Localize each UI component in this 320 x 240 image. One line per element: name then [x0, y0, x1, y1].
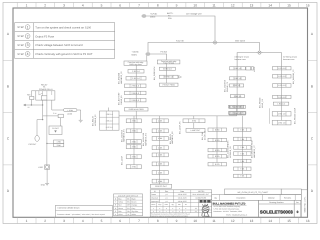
connector K1 rows [54, 140, 64, 143]
svg-text:4: 4 [27, 52, 29, 56]
svg-text:09-04-2025: 09-04-2025 [178, 197, 187, 200]
part description cell 2 [281, 189, 301, 195]
svg-text:Red: Red [118, 204, 121, 207]
svg-text:3 RD: 3 RD [132, 166, 137, 169]
svg-text:11: 11 [212, 219, 216, 223]
connector C7 pin row 3 [234, 146, 252, 150]
svg-text:7: 7 [138, 219, 140, 223]
connector S2 pin row 1 [128, 70, 144, 74]
svg-text:3 RD: 3 RD [132, 120, 137, 123]
wire: main distribution bus [119, 115, 237, 117]
connector S2 pin row 5 [125, 98, 147, 102]
wire: P5 bus [193, 123, 195, 129]
svg-text:MODULE_C6: MODULE_C6 [229, 146, 232, 158]
svg-text:13: 13 [250, 4, 254, 8]
bull logo [202, 204, 210, 216]
svg-text:F3 30A: F3 30A [161, 51, 168, 54]
svg-text:2 BK: 2 BK [57, 144, 62, 147]
connector C3 pin row 1 [230, 67, 246, 70]
svg-text:6 RD: 6 RD [215, 155, 220, 158]
svg-text:4 BK: 4 BK [158, 163, 163, 166]
connector C7 pin row 7 [234, 174, 252, 177]
wire: node to S2 header [146, 55, 148, 61]
svg-text:1 RD 1.0: 1 RD 1.0 [234, 95, 241, 98]
connector C5 header box 1 [228, 105, 243, 108]
svg-text:a: a [153, 211, 154, 213]
wire: P3 bus [133, 119, 135, 165]
svg-text:Connector details shown: Connector details shown [58, 207, 80, 210]
svg-text:6 RD: 6 RD [215, 139, 220, 142]
wire: node to wiring chass stack [262, 53, 282, 67]
svg-text:GND: GND [41, 183, 46, 186]
svg-text:STEP -: STEP - [17, 35, 25, 38]
svg-text:1 RD 1.0: 1 RD 1.0 [278, 113, 285, 116]
svg-text:7 BK: 7 BK [240, 146, 245, 149]
svg-text:10: 10 [193, 4, 197, 8]
svg-text:5 RD: 5 RD [192, 120, 197, 123]
fuse F16 [58, 114, 63, 118]
svg-text:Material: Material [268, 196, 275, 199]
svg-text:Yellow: Yellow [118, 201, 124, 204]
connector C7 pin row 6 [234, 167, 252, 170]
svg-text:3 RD: 3 RD [132, 130, 137, 133]
connector S2 header [124, 61, 147, 65]
svg-text:1 RD 1.0: 1 RD 1.0 [278, 75, 285, 78]
svg-text:HARNESS_P4: HARNESS_P4 [144, 133, 147, 146]
wire: P4 bus [159, 119, 161, 184]
connector P4 pin row 7 [152, 171, 168, 175]
svg-text:Violet: Violet [118, 213, 123, 216]
svg-text:14: 14 [268, 219, 272, 223]
company logo cell [199, 199, 212, 217]
svg-text:16: 16 [306, 219, 310, 223]
svg-text:1 RD: 1 RD [57, 141, 62, 144]
svg-text:4 BK: 4 BK [158, 154, 163, 157]
ground G1 [45, 183, 49, 185]
connector P4 pin row 5 [152, 153, 168, 157]
svg-text:8: 8 [157, 219, 159, 223]
connector P4 pin row 8 [152, 179, 168, 183]
wire: C4 bus [281, 67, 283, 121]
svg-text:4 BK: 4 BK [158, 171, 163, 174]
svg-text:09-04-2025: 09-04-2025 [178, 200, 187, 203]
svg-text:3 RD: 3 RD [132, 156, 137, 159]
wire: F23 feed to relay [31, 91, 35, 97]
svg-text:09-04-2025: 09-04-2025 [178, 193, 187, 196]
connector C4 pin row 3 [273, 84, 292, 88]
vertical sheet cell [301, 190, 307, 218]
svg-text:12: 12 [28, 106, 30, 109]
svg-text:Rev: Rev [165, 190, 168, 193]
svg-text:Fuse 30: Fuse 30 [176, 39, 184, 42]
svg-text:4: 4 [82, 4, 84, 8]
svg-text:Orange: Orange [132, 204, 138, 207]
wire: S100 junction to chassis node [218, 43, 260, 51]
svg-text:3: 3 [63, 219, 65, 223]
terminal F20 [35, 136, 39, 142]
note box [56, 205, 113, 217]
node: junction S100 [212, 41, 218, 44]
svg-text:This drawing is the property o: This drawing is the property of BULL MAC… [151, 214, 190, 216]
svg-text:2 RD 1.0: 2 RD 1.0 [131, 92, 138, 95]
svg-text:STEP -: STEP - [17, 26, 25, 29]
wire: junction to fuse drop [148, 43, 213, 53]
svg-text:S100 MAIN FEED: S100 MAIN FEED [129, 108, 145, 111]
wire: P2 stub [108, 108, 110, 112]
svg-text:7 BK: 7 BK [240, 175, 245, 178]
connector P4 footer [150, 184, 171, 188]
svg-text:Check voltage between S100 & G: Check voltage between S100 & Ground [35, 44, 83, 47]
arrow in box [54, 130, 57, 132]
svg-text:F23: F23 [27, 94, 30, 97]
part description cell [225, 189, 282, 195]
svg-text:1 RD 1.0: 1 RD 1.0 [278, 96, 285, 99]
header cells row [212, 195, 302, 201]
connector C3 pin row 6 [229, 112, 245, 115]
connector F3 pin row 2 [159, 75, 178, 78]
wire: lamp to ground [46, 169, 48, 183]
svg-text:4 BK: 4 BK [158, 120, 163, 123]
svg-text:4 BK: 4 BK [158, 130, 163, 133]
wire: C6 bus [216, 128, 218, 163]
svg-text:2: 2 [44, 219, 46, 223]
svg-text:Remarks: Remarks [284, 196, 291, 199]
connector P3 pin row 3 [126, 140, 141, 144]
svg-text:Date: Date [180, 190, 184, 193]
wire: F23 to off-page arrow [26, 100, 32, 106]
svg-text:+12Vdc: +12Vdc [150, 13, 157, 16]
svg-text:Black: Black [132, 197, 136, 200]
svg-text:STEP -: STEP - [17, 44, 25, 47]
connector S2 pin row 3 [125, 84, 147, 88]
svg-text:30 RD 4.0: 30 RD 4.0 [163, 68, 172, 71]
svg-text:6: 6 [119, 219, 121, 223]
svg-text:White: White [132, 213, 136, 216]
svg-text:e: e [179, 211, 180, 213]
svg-text:3: 3 [63, 4, 65, 8]
svg-text:SHEET NO 1 OF 1: SHEET NO 1 OF 1 [303, 197, 306, 213]
svg-text:7: 7 [138, 4, 140, 8]
connector P3 pin row 2 [126, 129, 141, 133]
connector S2 pin row 2 [126, 77, 146, 81]
svg-text:12: 12 [231, 219, 235, 223]
connector C5 header box 2 [228, 112, 246, 115]
wire: C7 bus [242, 128, 244, 174]
svg-text:2 RD 1.0: 2 RD 1.0 [132, 77, 139, 80]
svg-text:1 RD 1.0: 1 RD 1.0 [278, 122, 285, 125]
svg-text:S2 RELAY FEED: S2 RELAY FEED [229, 106, 244, 109]
svg-text:HARNESS_S2: HARNESS_S2 [120, 71, 123, 84]
svg-text:Turn on the system and check c: Turn on the system and check current on … [35, 26, 91, 29]
svg-text:5: 5 [101, 219, 103, 223]
svg-text:16: 16 [306, 4, 310, 8]
connector C6 pin row 5 [208, 163, 227, 166]
connector P4 pin row 3 [152, 137, 168, 141]
svg-text:STEP -: STEP - [17, 53, 25, 56]
svg-text:BATT+: BATT+ [167, 12, 174, 15]
svg-text:Qty: Qty [214, 196, 217, 199]
connector P3 pin row 1 [126, 119, 141, 123]
connector P3 OUT box [49, 126, 62, 135]
svg-text:B: B [311, 84, 313, 88]
relay R1 box [36, 91, 55, 100]
svg-text:LAMP_C4: LAMP_C4 [261, 99, 264, 108]
svg-text:4 BK: 4 BK [158, 147, 163, 150]
svg-text:15: 15 [287, 4, 291, 8]
connector P2 block [100, 111, 120, 130]
svg-text:BM_FUSE BOX: BM_FUSE BOX [153, 66, 156, 80]
wire: node to fuse box stack [151, 54, 167, 60]
wire: pin2 aux to F16 [43, 115, 59, 117]
svg-text:12: 12 [231, 4, 235, 8]
svg-text:0: 0 [297, 210, 299, 214]
connector C7 pin row 5 [234, 159, 252, 162]
node: battery junction B+ [141, 14, 147, 17]
connector C7 pin row 2 [234, 137, 252, 141]
svg-text:LAMP OUT: LAMP OUT [191, 129, 201, 132]
svg-text:6: 6 [119, 4, 121, 8]
wire: B+ run to corner [147, 16, 216, 41]
colour code table [114, 194, 143, 216]
svg-text:S100 P3 OUT: S100 P3 OUT [155, 185, 168, 188]
wire: C3 bus [236, 67, 238, 112]
wire: relay pin 3 down to lamp [46, 100, 48, 165]
step instruction table [15, 23, 115, 59]
connector S2 pin row 4 [125, 91, 147, 95]
svg-text:BULL MACHINES PVT LTD: BULL MACHINES PVT LTD [213, 202, 246, 205]
svg-text:3 YE 1.0: 3 YE 1.0 [106, 126, 113, 129]
svg-text:BM_WIRING_C2: BM_WIRING_C2 [292, 70, 295, 84]
connector F3 pin row 1 [159, 67, 175, 70]
svg-text:WE_GLOW_PLUG_P3_TO_CHART: WE_GLOW_PLUG_P3_TO_CHART [237, 191, 268, 194]
svg-text:7 BK: 7 BK [240, 129, 245, 132]
connector P4 pin row 1 [152, 119, 168, 123]
connector C3 pin row 3 [229, 84, 243, 87]
svg-text:Sky Blue: Sky Blue [132, 210, 139, 213]
svg-text:p1: p1 [166, 197, 168, 200]
svg-text:6 RD: 6 RD [215, 149, 220, 152]
svg-text:4: 4 [82, 219, 84, 223]
svg-text:HARNESS_C7: HARNESS_C7 [253, 145, 256, 158]
svg-text:Approved: Approved [151, 200, 158, 203]
svg-text:Blue: Blue [118, 197, 121, 200]
svg-text:harness conn: harness conn [283, 58, 294, 61]
ground G2 [79, 120, 83, 122]
svg-text:Drawing Number: Drawing Number [269, 201, 284, 204]
wire: branch to K1 connector [47, 142, 54, 144]
svg-text:MAIN: MAIN [132, 53, 138, 56]
svg-text:1 RD 1.0: 1 RD 1.0 [233, 84, 240, 87]
svg-text:SOLELETS0003: SOLELETS0003 [260, 209, 294, 214]
svg-text:1 RD 1.0: 1 RD 1.0 [234, 67, 241, 70]
svg-text:7 BK: 7 BK [240, 168, 245, 171]
drawing number block [259, 200, 295, 217]
node: chassis node [257, 51, 263, 54]
connector C4 pin row 1 [273, 67, 292, 70]
fuse F23 [30, 96, 34, 99]
svg-text:Checked: Checked [151, 197, 158, 200]
connector P3 pin row 4 [126, 145, 141, 149]
off-page arrow [23, 104, 26, 107]
svg-text:3 RD: 3 RD [132, 146, 137, 149]
bracket C4 sub-group [268, 108, 270, 124]
svg-text:9: 9 [176, 4, 178, 8]
svg-text:NOTES: NOTES [198, 190, 205, 193]
connector C4 pin row 2 [273, 75, 292, 79]
wire: F23 junction to relay pin [31, 104, 42, 106]
svg-text:F3 OUT FEED: F3 OUT FEED [163, 84, 176, 87]
svg-text:must not be copied or reproduc: must not be copied or reproduced without… [151, 216, 189, 218]
wire: node to engine chass stack [237, 53, 257, 67]
connector P5 pin row 1 [183, 119, 205, 123]
connector C6 pin row 4 [208, 155, 227, 159]
svg-text:1 RD 1.0: 1 RD 1.0 [106, 113, 113, 116]
connector C4 pin row 7 [272, 120, 291, 125]
svg-text:12V Voltage wire: 12V Voltage wire [186, 13, 202, 16]
svg-text:14: 14 [268, 4, 272, 8]
connector S2 footer [125, 108, 149, 111]
svg-text:5: 5 [101, 4, 103, 8]
connector F3 header [157, 60, 180, 64]
svg-text:1: 1 [26, 4, 28, 8]
svg-text:p1: p1 [166, 200, 168, 203]
svg-text:Brown: Brown [132, 201, 137, 204]
svg-text:1: 1 [26, 219, 28, 223]
wire: S2 bus [135, 65, 137, 107]
wire: relay pin 2 down [42, 100, 44, 120]
svg-text:2 BK 1.0: 2 BK 1.0 [106, 119, 113, 122]
wire: bus taps [135, 111, 137, 119]
svg-text:MODULE_P2: MODULE_P2 [94, 115, 97, 126]
svg-text:DOOR_C6: DOOR_C6 [204, 131, 207, 140]
svg-text:+12Vdc: +12Vdc [132, 51, 139, 54]
svg-text:p1: p1 [166, 193, 168, 196]
connector LCOM [64, 109, 78, 112]
connector P5 pin row 2 [186, 128, 205, 132]
wire: F3 bus [166, 64, 168, 83]
svg-text:7 BK: 7 BK [240, 138, 245, 141]
svg-text:2 RD 1.0: 2 RD 1.0 [131, 85, 138, 88]
connector C6 pin row 3 [208, 148, 227, 151]
connector C7 pin row 4 [234, 152, 252, 156]
svg-text:HARNESS_R2: HARNESS_R2 [171, 131, 174, 144]
svg-text:Green: Green [118, 207, 123, 210]
svg-text:Description: Description [236, 196, 245, 199]
svg-text:LCOM: LCOM [67, 112, 73, 115]
wire: LCOM to ground [77, 110, 81, 120]
svg-text:1: 1 [27, 25, 29, 29]
connector P4 pin row 2 [152, 129, 168, 133]
svg-text:LS06: LS06 [38, 166, 42, 169]
svg-text:1 RD 1.0: 1 RD 1.0 [278, 67, 285, 70]
svg-text:7 BK: 7 BK [240, 152, 245, 155]
svg-text:Wire name: Wire name [235, 39, 246, 42]
svg-text:8: 8 [157, 4, 159, 8]
svg-text:Output F3 Fuse: Output F3 Fuse [35, 35, 54, 38]
svg-text:6 RD: 6 RD [215, 163, 220, 166]
connector C3 pin row 2 [229, 77, 245, 80]
svg-text:Pink: Pink [118, 210, 121, 213]
svg-text:Drawn: Drawn [151, 193, 156, 196]
connector P4 pin row 4 [152, 146, 168, 150]
diode D1 [179, 76, 182, 79]
svg-text:4 BK: 4 BK [158, 180, 163, 183]
svg-text:3 RD: 3 RD [132, 140, 137, 143]
svg-text:87 RD 4.0: 87 RD 4.0 [164, 76, 173, 79]
connector C4 pin row 4 [273, 95, 292, 98]
connector P3 pin row 6 [126, 165, 141, 169]
svg-text:2: 2 [44, 4, 46, 8]
svg-text:BM_LAMP: BM_LAMP [120, 155, 123, 165]
svg-text:10: 10 [193, 219, 197, 223]
connector C3 pin row 5 [229, 105, 245, 108]
approval table [150, 190, 212, 218]
node: fuse node F3 [145, 52, 151, 55]
connector C4 pin row 5 [273, 102, 289, 105]
svg-text:1 RD 1.0: 1 RD 1.0 [277, 103, 284, 106]
stub between header boxes [236, 108, 238, 112]
svg-text:13: 13 [250, 219, 254, 223]
wire: branch to F20 terminal [37, 120, 43, 136]
svg-text:MAIN wire feed: MAIN wire feed [129, 63, 141, 66]
svg-text:CAB MAIN FEED: CAB MAIN FEED [230, 112, 245, 115]
svg-text:Grey: Grey [132, 207, 136, 210]
svg-text:2 RD 1.0: 2 RD 1.0 [132, 70, 139, 73]
connector C3 pin row 4 [230, 95, 244, 98]
relay R1 contacts [38, 91, 40, 95]
svg-text:11: 11 [212, 4, 216, 8]
svg-text:1 RD 1.0: 1 RD 1.0 [234, 77, 241, 80]
svg-text:Check continuity with ground i: Check continuity with ground in S100 & P… [35, 53, 93, 56]
svg-text:L COM: L COM [68, 109, 74, 112]
connector C4 pin row 6 [272, 112, 291, 116]
svg-text:BM_FRAME LAMP: BM_FRAME LAMP [294, 107, 297, 124]
svg-text:BM_LAMP_P5: BM_LAMP_P5 [178, 122, 181, 134]
connector P3 pin row 5 [126, 155, 141, 159]
svg-text:15: 15 [287, 219, 291, 223]
svg-text:2: 2 [27, 34, 29, 38]
svg-text:Fuse F3 feed: Fuse F3 feed [163, 62, 174, 65]
svg-text:R1: R1 [43, 86, 45, 89]
svg-text:9: 9 [176, 219, 178, 223]
svg-text:CABLE_B1: CABLE_B1 [120, 95, 123, 105]
svg-text:harness conn: harness conn [235, 58, 246, 61]
svg-text:2 RD 1.0: 2 RD 1.0 [131, 99, 138, 102]
svg-text:FRAME_C3: FRAME_C3 [226, 82, 229, 92]
wire: F16 output down [60, 118, 62, 126]
connector F3 footer [159, 83, 178, 86]
svg-text:F 16: F 16 [53, 112, 56, 115]
svg-text:F20 OUT: F20 OUT [29, 143, 38, 146]
lamp LS06 [45, 165, 50, 169]
svg-text:6 RD: 6 RD [215, 129, 220, 132]
company cell [212, 200, 259, 217]
svg-text:7 BK: 7 BK [240, 160, 245, 163]
connector P4 pin row 6 [152, 162, 168, 166]
wire: relay pin 4 to LCOM [52, 100, 64, 110]
connector C6 pin row 2 [208, 138, 227, 141]
svg-text:B: B [7, 84, 9, 88]
relay R1 coil [41, 96, 47, 100]
svg-text:4 BK: 4 BK [158, 137, 163, 140]
svg-text:P3 OUT: P3 OUT [52, 127, 59, 130]
svg-text:1 RD 1.0: 1 RD 1.0 [278, 84, 285, 87]
connector C3 aux pins [246, 67, 251, 70]
connector C6 pin row 1 [208, 128, 227, 131]
connector C7 pin row 1 [234, 128, 252, 131]
svg-text:HARNESS_P3: HARNESS_P3 [123, 129, 126, 142]
logo marks [200, 200, 211, 203]
